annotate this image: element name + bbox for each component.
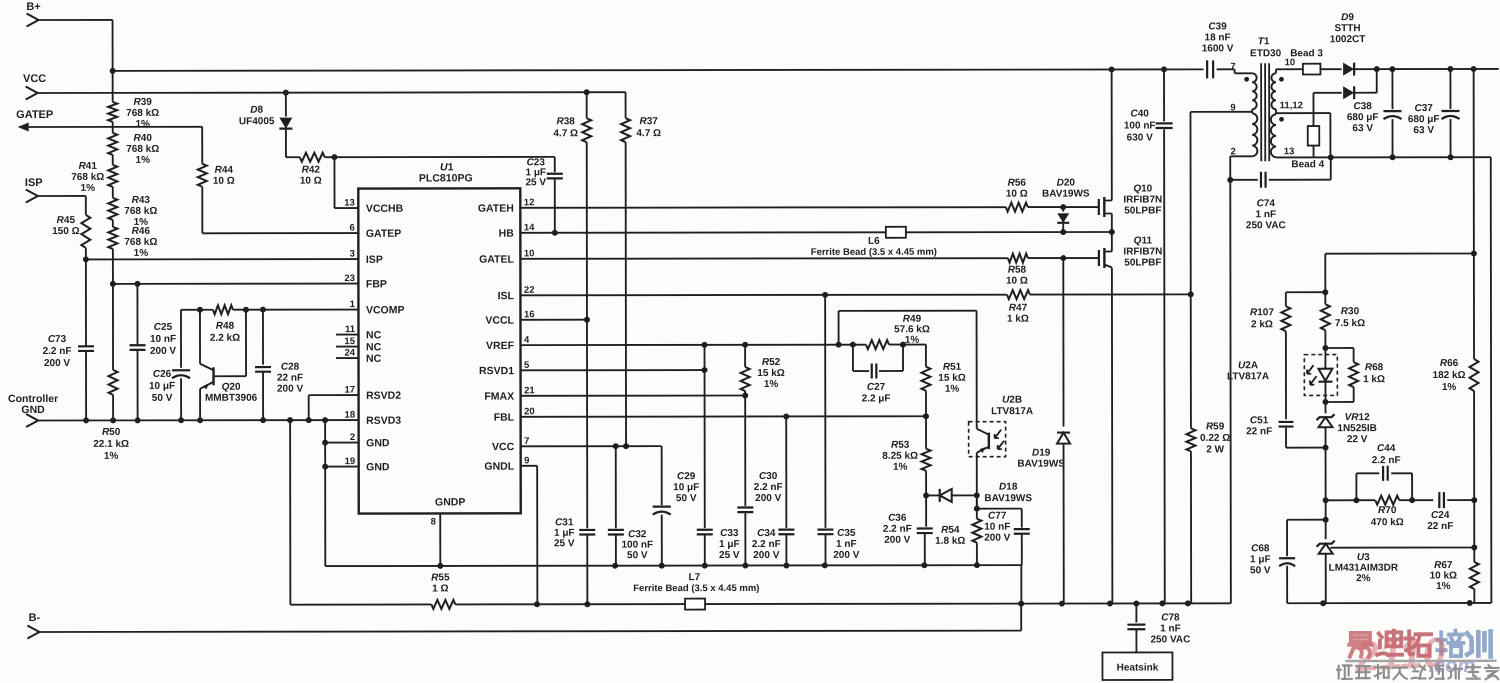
wire VREF to U2B collector bracket — [839, 311, 977, 424]
svg-text:9: 9 — [524, 455, 529, 466]
svg-text:ETD30: ETD30 — [1250, 48, 1282, 59]
svg-text:R68: R68 — [1365, 362, 1384, 373]
svg-text:10 μF: 10 μF — [673, 482, 699, 493]
svg-text:3: 3 — [350, 249, 355, 260]
resistor R42 — [286, 153, 338, 187]
svg-text:2 W: 2 W — [1206, 444, 1224, 455]
transformer T1 secondary winding — [1271, 57, 1303, 157]
svg-text:PLC810PG: PLC810PG — [419, 172, 473, 184]
wire T1 pin 2 to C74 node — [1227, 156, 1253, 603]
svg-text:20: 20 — [524, 406, 535, 417]
wire secondary ground rail — [1287, 600, 1491, 606]
wire chain to FBP — [110, 249, 116, 287]
resistor R52 — [741, 345, 785, 396]
svg-text:2.2 kΩ: 2.2 kΩ — [210, 333, 240, 344]
resistor R47 — [1007, 290, 1030, 325]
capacitor C23 — [334, 157, 562, 236]
svg-text:B+: B+ — [26, 1, 40, 13]
svg-text:768 kΩ: 768 kΩ — [126, 108, 159, 119]
svg-text:200 V: 200 V — [277, 384, 303, 395]
capacitor C39 — [1202, 21, 1252, 78]
svg-text:R107: R107 — [1250, 307, 1274, 318]
svg-text:19: 19 — [345, 456, 356, 467]
svg-text:1%: 1% — [764, 379, 779, 390]
watermark logo red characters — [1349, 631, 1431, 657]
wire T1 pin 9 sense line — [1190, 111, 1252, 113]
svg-text:ISP: ISP — [25, 177, 43, 189]
svg-text:IRFIB7N: IRFIB7N — [1123, 246, 1162, 257]
svg-text:VCC: VCC — [23, 73, 46, 85]
svg-text:22 nF: 22 nF — [1246, 426, 1272, 437]
wire GATEP to pin 6 — [202, 232, 358, 234]
svg-text:Ferrite Bead (3.5 x 4.45 mm): Ferrite Bead (3.5 x 4.45 mm) — [633, 583, 759, 594]
svg-text:R53: R53 — [891, 440, 910, 451]
svg-text:R48: R48 — [216, 321, 235, 332]
svg-text:U2B: U2B — [1002, 395, 1022, 406]
node Controller GND — [8, 393, 58, 427]
svg-text:GNDL: GNDL — [484, 461, 514, 473]
svg-text:4.7 Ω: 4.7 Ω — [636, 128, 661, 139]
svg-text:C30: C30 — [759, 471, 778, 482]
svg-text:GND: GND — [21, 404, 45, 416]
capacitor C68 — [1250, 520, 1326, 604]
watermark overlay italic text — [1353, 628, 1475, 680]
svg-text:1%: 1% — [136, 155, 151, 166]
svg-text:18: 18 — [345, 410, 356, 421]
svg-text:2%: 2% — [1356, 573, 1371, 584]
svg-text:1600 V: 1600 V — [1202, 43, 1234, 54]
resistor R40 — [108, 122, 159, 166]
capacitor C24 — [1427, 492, 1477, 532]
svg-text:200 V: 200 V — [833, 550, 859, 561]
svg-text:C78: C78 — [1161, 612, 1180, 623]
svg-text:GATEH: GATEH — [478, 203, 514, 215]
svg-text:8: 8 — [431, 516, 436, 527]
svg-text:NC: NC — [366, 329, 382, 341]
svg-text:15 kΩ: 15 kΩ — [757, 368, 784, 379]
resistor R41 — [71, 155, 117, 194]
wire VCC pin 7 line — [521, 443, 662, 449]
svg-text:D8: D8 — [250, 105, 263, 116]
svg-text:R38: R38 — [557, 116, 576, 127]
heatsink box — [1102, 652, 1172, 680]
svg-text:21: 21 — [524, 385, 535, 396]
svg-text:250 VAC: 250 VAC — [1150, 634, 1190, 645]
resistor R50 — [93, 284, 129, 462]
opto LED U2A LTV817A — [1227, 348, 1337, 405]
resistor R67 — [1429, 500, 1478, 603]
diode D18 — [926, 482, 1032, 505]
svg-text:C27: C27 — [867, 382, 886, 393]
svg-text:FBL: FBL — [494, 412, 515, 424]
resistor R38 — [553, 92, 591, 320]
svg-text:Q20: Q20 — [222, 382, 241, 393]
svg-text:R42: R42 — [302, 165, 321, 176]
resistor R46 — [108, 220, 157, 259]
resistor R107 — [1250, 292, 1326, 419]
svg-text:768 kΩ: 768 kΩ — [126, 144, 159, 155]
svg-text:C26: C26 — [153, 369, 172, 380]
svg-text:150 Ω: 150 Ω — [52, 226, 79, 237]
svg-text:1 nF: 1 nF — [1256, 209, 1277, 220]
svg-text:1N525IB: 1N525IB — [1337, 423, 1376, 434]
svg-text:C40: C40 — [1130, 108, 1149, 119]
resistor R49 — [866, 314, 930, 349]
svg-text:768 kΩ: 768 kΩ — [124, 206, 157, 217]
svg-text:1%: 1% — [1436, 581, 1451, 592]
svg-text:200 V: 200 V — [755, 493, 781, 504]
U1 right pin labels — [478, 197, 536, 472]
svg-text:LTV817A: LTV817A — [1227, 371, 1269, 382]
svg-text:22 nF: 22 nF — [1427, 521, 1453, 532]
svg-text:2.2 nF: 2.2 nF — [883, 524, 912, 535]
svg-text:1 nF: 1 nF — [1160, 623, 1181, 634]
svg-text:B-: B- — [29, 612, 41, 624]
wire C77 branch — [974, 495, 1022, 511]
svg-text:C37: C37 — [1414, 103, 1433, 114]
capacitor C38 — [1347, 69, 1402, 157]
capacitor C28 — [255, 310, 304, 424]
svg-text:R37: R37 — [640, 116, 659, 127]
wire ISL pin 22 — [520, 291, 1193, 298]
resistor R54 — [935, 495, 981, 565]
node B+ — [26, 1, 40, 27]
svg-text:2.2 nF: 2.2 nF — [43, 346, 72, 357]
svg-text:200 V: 200 V — [150, 346, 176, 357]
svg-text:2: 2 — [350, 432, 355, 443]
capacitor C34 — [752, 416, 795, 565]
svg-text:Q11: Q11 — [1134, 235, 1153, 246]
svg-text:7.5 kΩ: 7.5 kΩ — [1335, 318, 1365, 329]
svg-text:13: 13 — [344, 198, 355, 209]
svg-text:10 Ω: 10 Ω — [300, 176, 322, 187]
svg-text:1%: 1% — [134, 248, 149, 259]
svg-text:16: 16 — [524, 309, 535, 320]
svg-text:100 nF: 100 nF — [621, 540, 653, 551]
capacitor C36 — [883, 495, 933, 565]
svg-text:VREF: VREF — [486, 340, 515, 352]
svg-text:BAV19WS: BAV19WS — [1017, 459, 1065, 470]
svg-text:63 V: 63 V — [1352, 123, 1373, 134]
svg-text:768 kΩ: 768 kΩ — [71, 172, 104, 183]
svg-text:22: 22 — [524, 285, 535, 296]
svg-text:Bead 4: Bead 4 — [1291, 159, 1324, 170]
svg-text:D18: D18 — [999, 482, 1018, 493]
U1 NC pin stubs — [336, 335, 359, 359]
svg-text:R56: R56 — [1008, 178, 1027, 189]
transformer T1 core — [1250, 36, 1282, 161]
wire controller ground line — [38, 417, 359, 423]
svg-text:U2A: U2A — [1238, 360, 1258, 371]
svg-text:1%: 1% — [135, 119, 150, 130]
svg-text:680 μF: 680 μF — [1408, 114, 1440, 125]
svg-text:2.2 nF: 2.2 nF — [752, 539, 781, 550]
svg-text:ISL: ISL — [498, 290, 515, 302]
capacitor C32 — [608, 446, 653, 566]
svg-text:50 V: 50 V — [676, 493, 697, 504]
svg-text:C24: C24 — [1431, 510, 1450, 521]
svg-text:2.2 nF: 2.2 nF — [754, 482, 783, 493]
svg-text:25 V: 25 V — [719, 550, 740, 561]
svg-text:1 μF: 1 μF — [1250, 554, 1271, 565]
svg-text:C73: C73 — [48, 334, 67, 345]
capacitor C78 — [1127, 603, 1190, 652]
svg-text:200 V: 200 V — [884, 535, 910, 546]
capacitor C31 — [554, 320, 596, 605]
svg-text:18 nF: 18 nF — [1205, 32, 1231, 43]
resistor R56 — [1006, 178, 1028, 212]
wire GATEL pin 10 — [520, 255, 1099, 262]
svg-text:STTH: STTH — [1335, 23, 1361, 34]
svg-text:11: 11 — [345, 324, 356, 335]
capacitor C35 — [817, 295, 860, 566]
svg-text:C36: C36 — [888, 513, 907, 524]
capacitor C26 — [149, 310, 190, 424]
svg-text:R45: R45 — [57, 215, 76, 226]
svg-text:C34: C34 — [757, 528, 776, 539]
wire feedback feed line — [1322, 250, 1477, 295]
svg-text:1: 1 — [350, 299, 356, 310]
ferrite bead Bead 4 — [1291, 93, 1324, 170]
svg-text:100 nF: 100 nF — [1124, 120, 1156, 131]
svg-text:C28: C28 — [281, 362, 300, 373]
shunt regulator U3 LM431 — [1317, 519, 1478, 603]
svg-text:10: 10 — [524, 248, 535, 259]
capacitor C40 — [1124, 69, 1173, 603]
svg-text:C44: C44 — [1377, 443, 1396, 454]
svg-text:Bead 3: Bead 3 — [1290, 48, 1323, 59]
svg-text:R66: R66 — [1440, 358, 1459, 369]
node GATEP — [16, 109, 202, 132]
node B- — [27, 612, 40, 639]
wire RSVD2 pin 17 — [309, 395, 359, 420]
svg-text:R39: R39 — [133, 97, 152, 108]
svg-text:10 μF: 10 μF — [149, 381, 175, 392]
transistor Q11 IRFIB7N — [1099, 232, 1163, 604]
svg-text:10 nF: 10 nF — [150, 334, 176, 345]
diode D19 — [1017, 258, 1070, 604]
svg-text:1.8 kΩ: 1.8 kΩ — [935, 536, 965, 547]
node VCC — [23, 73, 46, 100]
svg-text:470 kΩ: 470 kΩ — [1371, 517, 1404, 528]
opto transistor U2B LTV817A — [969, 395, 1034, 496]
wire ISP line to pin 3 — [83, 256, 359, 262]
resistor R48 — [210, 305, 240, 344]
svg-text:R41: R41 — [79, 161, 98, 172]
svg-text:IRFIB7N: IRFIB7N — [1123, 194, 1162, 205]
svg-text:C31: C31 — [555, 517, 574, 528]
svg-text:680 μF: 680 μF — [1347, 112, 1379, 123]
ferrite bead L7 — [534, 571, 1231, 609]
svg-text:GATEP: GATEP — [16, 109, 53, 121]
svg-text:Q10: Q10 — [1133, 183, 1152, 194]
zener diode VR12 — [1316, 402, 1376, 448]
svg-text:7: 7 — [1230, 61, 1235, 72]
svg-text:GND: GND — [366, 437, 390, 449]
resistor R55 — [290, 572, 685, 609]
resistor R44 — [198, 127, 235, 234]
svg-text:R55: R55 — [431, 572, 450, 583]
watermark underline — [1345, 660, 1496, 663]
resistor R43 — [108, 187, 157, 228]
wire B+ long rail to half-bridge — [113, 66, 1204, 74]
svg-text:13: 13 — [1284, 146, 1295, 157]
svg-text:L7: L7 — [688, 572, 700, 583]
svg-text:LTV817A: LTV817A — [991, 406, 1033, 417]
svg-text:L6: L6 — [868, 236, 880, 247]
transformer T1 primary winding — [1230, 61, 1257, 157]
resistor R39 — [108, 97, 159, 130]
svg-text:22.1 kΩ: 22.1 kΩ — [93, 439, 129, 450]
svg-text:R30: R30 — [1341, 306, 1360, 317]
svg-text:UF4005: UF4005 — [239, 116, 275, 127]
svg-text:Heatsink: Heatsink — [1117, 662, 1159, 673]
capacitor C29 — [653, 446, 700, 566]
svg-text:C33: C33 — [720, 528, 739, 539]
svg-text:C25: C25 — [154, 322, 173, 333]
wire FBL pin 20 — [521, 413, 929, 420]
svg-text:C32: C32 — [628, 529, 647, 540]
wire GATEH pin 12 — [520, 204, 1099, 211]
svg-text:6: 6 — [350, 223, 355, 234]
svg-text:10 Ω: 10 Ω — [1006, 189, 1028, 200]
svg-text:C35: C35 — [837, 528, 856, 539]
wire T1 center tap 11 12 — [1276, 113, 1330, 157]
svg-text:2 kΩ: 2 kΩ — [1251, 319, 1273, 330]
svg-text:GATEP: GATEP — [366, 228, 401, 240]
svg-text:C68: C68 — [1251, 543, 1270, 554]
svg-text:50 V: 50 V — [1250, 565, 1271, 576]
svg-text:15: 15 — [344, 336, 355, 347]
svg-text:R44: R44 — [215, 165, 234, 176]
node ISP — [25, 177, 86, 203]
diode D9 lower — [1313, 69, 1376, 99]
svg-text:2.2 μF: 2.2 μF — [862, 393, 891, 404]
svg-text:C29: C29 — [677, 471, 696, 482]
ferrite bead Bead 3 — [1290, 48, 1341, 74]
svg-text:R51: R51 — [943, 362, 962, 373]
svg-text:15 kΩ: 15 kΩ — [938, 373, 965, 384]
svg-text:RSVD1: RSVD1 — [479, 365, 514, 377]
svg-text:22 nF: 22 nF — [277, 373, 303, 384]
capacitor C73 — [42, 259, 94, 423]
svg-text:630 V: 630 V — [1127, 132, 1153, 143]
svg-text:200 V: 200 V — [44, 358, 70, 369]
transistor Q20 — [197, 310, 258, 424]
svg-text:0.22 Ω: 0.22 Ω — [1200, 433, 1230, 444]
svg-text:FMAX: FMAX — [484, 391, 514, 403]
svg-text:LM431AIM3DR: LM431AIM3DR — [1329, 563, 1399, 574]
svg-text:C74: C74 — [1257, 198, 1276, 209]
capacitor C30 — [737, 395, 783, 565]
wire VREF pin 4 — [521, 342, 926, 349]
svg-text:1002CT: 1002CT — [1330, 34, 1366, 45]
capacitor C25 — [129, 284, 176, 424]
capacitor C37 — [1408, 69, 1460, 157]
resistor R59 — [1186, 112, 1231, 604]
wire HB pin 14 — [520, 229, 1115, 236]
capacitor C44 — [1356, 443, 1412, 500]
svg-text:22 V: 22 V — [1347, 434, 1368, 445]
svg-text:ISP: ISP — [366, 254, 383, 266]
svg-text:VCC: VCC — [492, 441, 515, 453]
svg-text:C38: C38 — [1353, 101, 1372, 112]
svg-text:R49: R49 — [903, 314, 922, 325]
wire GNDL pin 9 — [521, 466, 538, 605]
svg-text:1 μF: 1 μF — [719, 539, 740, 550]
svg-text:25 V: 25 V — [554, 538, 575, 549]
transistor Q10 IRFIB7N — [1099, 69, 1163, 232]
svg-text:7: 7 — [524, 436, 529, 447]
svg-text:5: 5 — [524, 360, 530, 371]
svg-text:200 V: 200 V — [984, 533, 1010, 544]
resistor R37 — [621, 92, 661, 449]
wire B- rail — [38, 604, 1021, 632]
wire RSVD1 pin 5 — [521, 367, 708, 373]
watermark gray slogan characters — [1337, 665, 1498, 680]
ferrite bead L6 — [811, 227, 937, 258]
wire output plus rail — [1377, 66, 1499, 72]
wire ground bus — [325, 562, 1024, 607]
svg-text:MMBT3906: MMBT3906 — [205, 393, 258, 404]
diode D20 — [1042, 178, 1090, 236]
svg-text:R46: R46 — [132, 226, 151, 237]
resistor R51 — [921, 344, 965, 416]
svg-text:RSVD3: RSVD3 — [366, 415, 401, 427]
wire secondary pin 10 to bead 3 — [1276, 69, 1303, 73]
capacitor C74 — [1230, 154, 1334, 231]
capacitor C51 — [1246, 415, 1329, 451]
diode D8 — [239, 93, 293, 158]
svg-text:C77: C77 — [988, 511, 1007, 522]
wire B+ rail top — [38, 20, 116, 102]
svg-text:250 VAC: 250 VAC — [1246, 220, 1286, 231]
svg-text:50LPBF: 50LPBF — [1124, 205, 1161, 216]
svg-text:R50: R50 — [102, 427, 121, 438]
wire secondary return line — [1276, 154, 1491, 603]
wire VCCHB pin 13 — [334, 157, 358, 208]
svg-text:R40: R40 — [134, 133, 153, 144]
svg-text:D20: D20 — [1057, 178, 1076, 189]
svg-text:4: 4 — [524, 335, 530, 346]
svg-text:1%: 1% — [81, 183, 96, 194]
wire VCCL pin 16 — [520, 317, 590, 323]
resistor R70 — [1326, 496, 1434, 529]
capacitor C77 — [984, 509, 1030, 566]
svg-text:1 kΩ: 1 kΩ — [1007, 314, 1029, 325]
diode D9 upper — [1330, 12, 1380, 76]
svg-text:4.7 Ω: 4.7 Ω — [553, 128, 578, 139]
svg-text:R70: R70 — [1378, 505, 1397, 516]
resistor R53 — [882, 416, 930, 498]
svg-text:VCOMP: VCOMP — [366, 304, 405, 316]
svg-text:R67: R67 — [1434, 560, 1453, 571]
svg-text:NC: NC — [366, 341, 382, 353]
wire FBP line pin 23 — [113, 281, 359, 287]
svg-text:12: 12 — [524, 197, 535, 208]
U1 GNDP pin label — [431, 496, 466, 527]
svg-text:1%: 1% — [945, 384, 960, 395]
svg-text:1%: 1% — [1442, 382, 1457, 393]
svg-text:R54: R54 — [941, 525, 960, 536]
svg-text:T1: T1 — [1258, 36, 1270, 47]
svg-text:10 nF: 10 nF — [984, 522, 1010, 533]
svg-text:1 nF: 1 nF — [836, 539, 857, 550]
svg-text:FBP: FBP — [366, 278, 387, 290]
wire VCC rail — [38, 89, 626, 96]
svg-text:RSVD2: RSVD2 — [366, 390, 401, 402]
svg-text:VR12: VR12 — [1345, 412, 1370, 423]
